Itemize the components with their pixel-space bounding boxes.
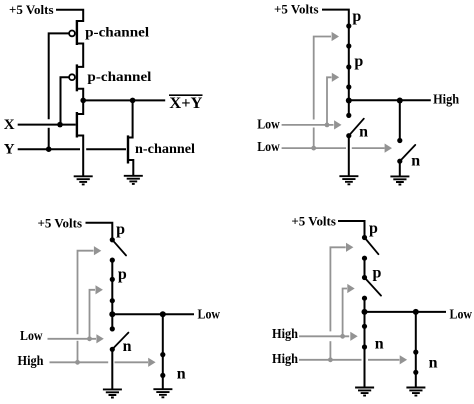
svg-text:p: p [369, 220, 378, 237]
svg-text:X: X [4, 117, 15, 133]
svg-text:Low: Low [257, 140, 280, 155]
svg-text:High: High [18, 354, 44, 369]
svg-text:Low: Low [198, 308, 221, 323]
svg-text:p: p [354, 53, 363, 70]
svg-text:p-channel: p-channel [85, 26, 149, 41]
svg-text:High: High [433, 92, 459, 107]
svg-text:n: n [411, 152, 420, 169]
svg-text:p: p [118, 266, 127, 283]
svg-text:n: n [177, 366, 186, 383]
svg-text:X+Y: X+Y [169, 95, 202, 112]
svg-text:n: n [429, 355, 438, 372]
svg-text:n: n [375, 335, 384, 352]
svg-text:+5 Volts: +5 Volts [9, 2, 54, 17]
svg-text:n-channel: n-channel [135, 142, 195, 157]
svg-text:High: High [272, 352, 298, 367]
svg-text:Low: Low [257, 118, 280, 133]
svg-text:Y: Y [4, 142, 15, 158]
svg-text:p-channel: p-channel [87, 70, 151, 85]
svg-text:p: p [352, 8, 361, 25]
svg-text:Low: Low [20, 329, 43, 344]
svg-text:+5 Volts: +5 Volts [291, 214, 336, 229]
svg-text:+5 Volts: +5 Volts [274, 2, 319, 17]
svg-text:p: p [116, 221, 125, 238]
svg-text:+5 Volts: +5 Volts [38, 216, 83, 231]
svg-text:p: p [373, 265, 382, 282]
svg-text:n: n [123, 338, 132, 355]
svg-text:High: High [272, 327, 298, 342]
svg-text:Low: Low [450, 308, 473, 323]
svg-text:n: n [359, 124, 368, 141]
